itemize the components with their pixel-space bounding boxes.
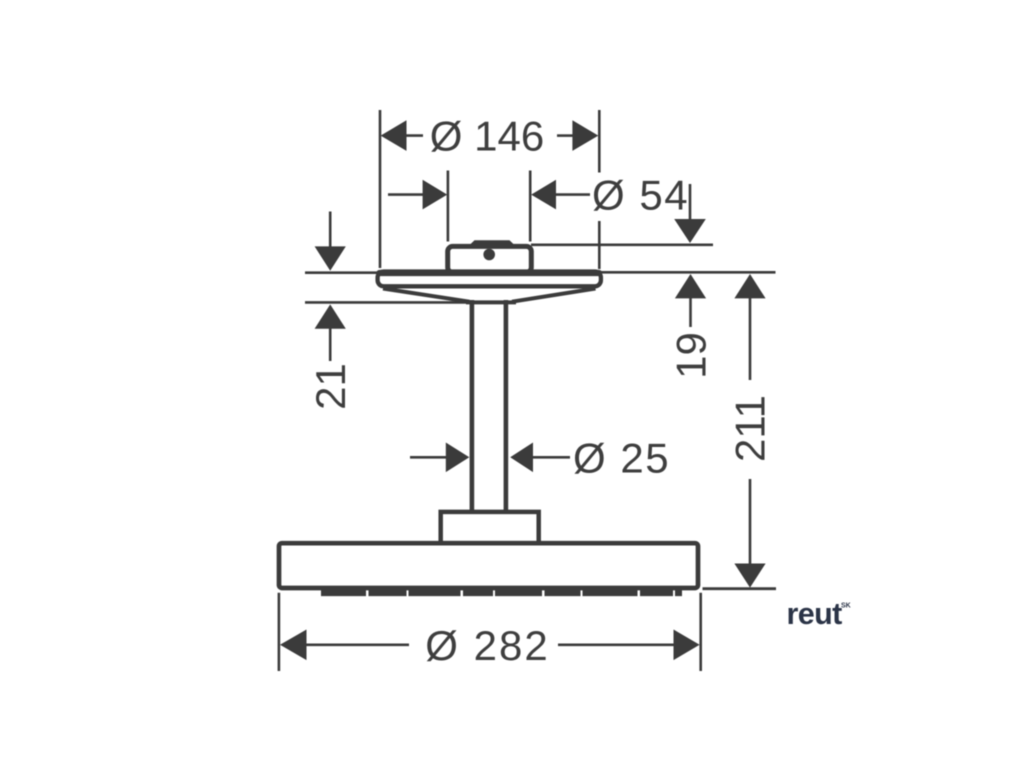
svg-text:Ø 54: Ø 54 <box>592 172 689 219</box>
dim 21 upper arrowhead <box>315 246 346 270</box>
dim Ø146 right arrowhead <box>572 120 598 151</box>
dim Ø54 drop arrowhead <box>674 219 706 243</box>
dim Ø54 left arrowhead <box>423 180 448 210</box>
dim Ø54 right extension line <box>529 171 532 242</box>
pipe left edge <box>470 300 475 512</box>
dim Ø54 left extension line <box>447 171 450 242</box>
dim 21 upper stem <box>329 212 332 247</box>
svg-text:211: 211 <box>727 395 774 462</box>
dim 211 upper stem <box>749 298 752 381</box>
dim Ø146 left stem <box>406 134 423 137</box>
dim Ø282 left arrowhead <box>280 630 307 661</box>
svg-text:Ø 146: Ø 146 <box>430 113 544 160</box>
dim Ø146 right stem <box>557 134 573 137</box>
flange top level line left <box>305 271 378 274</box>
dim Ø25 left arrowhead <box>446 443 470 473</box>
screw dot <box>483 249 495 261</box>
flange plate <box>378 272 601 287</box>
dim Ø146 right extension line upper segment <box>598 110 601 173</box>
spray face band <box>321 589 682 596</box>
connector cap lip <box>468 240 516 246</box>
dim Ø146 left extension line <box>379 110 382 268</box>
svg-text:SK: SK <box>841 603 851 610</box>
dim 21 lower arrowhead <box>315 304 346 328</box>
pipe right edge <box>504 300 509 512</box>
svg-text:21: 21 <box>307 363 354 410</box>
dim 21 lower stem <box>329 328 332 361</box>
dim 211 lower stem <box>749 479 752 564</box>
dim Ø146 right extension line lower segment <box>598 221 601 269</box>
dim Ø282 right extension line <box>699 593 702 671</box>
dim 19 stem <box>689 298 692 328</box>
svg-text:Ø 282: Ø 282 <box>425 622 549 669</box>
dim Ø54 left stem <box>388 193 424 196</box>
cap top level line <box>531 244 713 247</box>
svg-text:19: 19 <box>668 332 715 379</box>
shower head body <box>279 543 698 588</box>
head bottom level line right <box>703 587 777 590</box>
dim 211 upper arrowhead <box>734 274 765 298</box>
svg-text:reut: reut <box>787 597 843 631</box>
dim 19 arrowhead <box>675 274 706 298</box>
dim Ø25 right stem <box>531 456 570 459</box>
dim Ø282 right arrowhead <box>674 630 700 661</box>
skirt right slant <box>512 289 596 302</box>
dim Ø25 right arrowhead <box>510 443 533 473</box>
dim Ø25 left stem <box>410 456 447 459</box>
flange top level line right <box>601 271 776 274</box>
dim 211 lower arrowhead <box>734 564 765 588</box>
bottom connector box <box>441 512 539 543</box>
dim Ø54 drop stem <box>689 184 692 219</box>
flange top thick edge <box>380 270 600 276</box>
dim Ø146 left arrowhead <box>381 120 407 151</box>
skirt bottom level line left <box>305 301 467 304</box>
skirt left slant <box>383 289 470 302</box>
connector cap box <box>448 246 532 272</box>
dim Ø54 right stem <box>555 193 590 196</box>
dim Ø282 left stem <box>305 643 409 646</box>
skirt bottom edge <box>466 300 516 304</box>
svg-text:Ø 25: Ø 25 <box>573 435 670 482</box>
dim Ø54 right arrowhead <box>531 180 556 210</box>
dim Ø282 left extension line <box>278 593 281 671</box>
dim Ø282 right stem <box>558 643 675 646</box>
